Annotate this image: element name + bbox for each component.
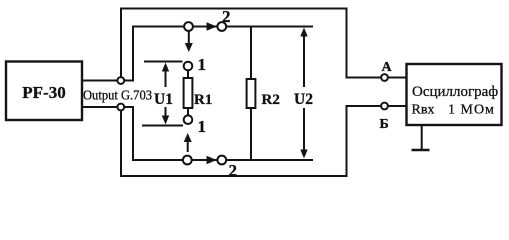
svg-text:PF-30: PF-30 bbox=[22, 83, 65, 102]
terminal node B bbox=[381, 103, 388, 110]
svg-text:U2: U2 bbox=[294, 91, 313, 108]
wire: outer loop right drop to A bbox=[346, 8, 348, 78]
svg-text:2: 2 bbox=[222, 7, 231, 26]
ground bar bbox=[412, 149, 430, 152]
node 1 (bottom, plug-in point) bbox=[184, 115, 193, 124]
arrow on bottom rail (current direction) bbox=[205, 159, 208, 161]
junction node on bottom rail (left) bbox=[183, 156, 192, 165]
svg-text:Output G.703: Output G.703 bbox=[83, 88, 152, 103]
junction node 2 on bottom rail bbox=[217, 156, 226, 165]
svg-text:1 МОм: 1 МОм bbox=[448, 103, 495, 118]
wire: PF-30 top output bbox=[82, 80, 118, 82]
U2 voltage arrow upper segment bbox=[303, 33, 305, 87]
wire: PF-30 bottom output bbox=[82, 106, 118, 108]
resistor R1 bbox=[184, 78, 193, 108]
terminal node top (Output G.703) bbox=[117, 77, 124, 84]
oscilloscope box bbox=[407, 64, 502, 125]
ground lead bbox=[421, 125, 423, 150]
U2 voltage arrow lower segment bbox=[303, 108, 305, 153]
wire: outer loop left riser bottom bbox=[120, 111, 122, 176]
svg-text:2: 2 bbox=[229, 161, 238, 180]
U1 reference tick bottom bbox=[142, 125, 183, 127]
terminal node bottom (Output G.703) bbox=[117, 104, 124, 111]
arrow down from top rail to node 1 bbox=[188, 32, 190, 46]
svg-text:А: А bbox=[382, 60, 393, 75]
svg-text:Осциллограф: Осциллограф bbox=[412, 84, 498, 100]
terminal node A bbox=[381, 74, 388, 81]
wire: stub to terminal A bbox=[346, 77, 382, 79]
wire: inner loop bottom left corner bbox=[124, 107, 133, 160]
resistor R2 bbox=[247, 79, 256, 108]
svg-text:R1: R1 bbox=[194, 92, 212, 108]
junction node on top rail (left) bbox=[184, 22, 193, 31]
wire: R2 branch upper bbox=[250, 27, 252, 80]
node 1 (top, plug-in point) bbox=[184, 62, 193, 71]
svg-text:U1: U1 bbox=[154, 91, 173, 108]
arrow on top rail (current direction) bbox=[205, 26, 208, 28]
U1 voltage arrow upper segment bbox=[165, 68, 167, 87]
junction node 2 on top rail bbox=[217, 22, 226, 31]
svg-text:1: 1 bbox=[198, 117, 207, 136]
wire: R2 branch lower bbox=[250, 108, 252, 160]
svg-text:1: 1 bbox=[198, 55, 207, 74]
wire: B to oscilloscope bbox=[388, 105, 406, 107]
arrow up from bottom rail to node 1 bbox=[187, 140, 189, 152]
wire: node1 to R1 top bbox=[187, 70, 189, 78]
wire: inner loop top left corner bbox=[124, 27, 133, 81]
wire: A to oscilloscope bbox=[388, 77, 406, 79]
wire: outer loop left riser top bbox=[120, 9, 122, 77]
svg-text:R2: R2 bbox=[262, 92, 280, 108]
generator box PF-30 bbox=[6, 62, 82, 121]
wire: outer loop top edge bbox=[120, 8, 347, 10]
wire: outer loop right rise to B bbox=[346, 106, 348, 177]
svg-text:Б: Б bbox=[380, 117, 389, 132]
wire: inner bottom rail bbox=[132, 159, 313, 161]
wire: outer loop bottom edge bbox=[120, 175, 347, 177]
svg-text:Rвх: Rвх bbox=[412, 103, 435, 118]
wire: stub to terminal B bbox=[346, 105, 382, 107]
wire: inner top rail bbox=[132, 26, 313, 28]
U1 reference tick top bbox=[144, 61, 183, 63]
wire: R1 bottom to node1 bottom bbox=[187, 108, 189, 115]
U1 voltage arrow lower segment bbox=[165, 107, 167, 119]
